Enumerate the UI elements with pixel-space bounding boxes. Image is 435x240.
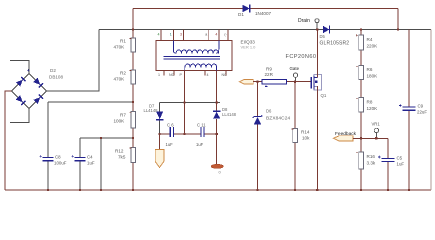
node VR1 [372, 122, 381, 139]
svg-text:C8: C8 [55, 155, 61, 160]
pin 7 stub [218, 30, 220, 41]
bottom pin stub NC [173, 70, 175, 75]
svg-text:R8: R8 [367, 100, 373, 105]
svg-text:470K: 470K [114, 45, 126, 50]
wire C5 column [387, 138, 389, 190]
svg-text:R16: R16 [367, 154, 376, 159]
svg-text:22R: 22R [265, 72, 274, 77]
capacitor C5 [378, 156, 405, 167]
svg-text:BZX84C24: BZX84C24 [266, 116, 290, 122]
svg-text:100K: 100K [114, 119, 126, 124]
svg-text:10k: 10k [302, 136, 310, 141]
ground [211, 134, 223, 174]
capacitor C9 [399, 104, 428, 115]
core lines [164, 56, 221, 59]
wire secondary lead A [184, 70, 186, 134]
pin 2 stub [172, 30, 174, 41]
svg-text:VR1: VR1 [372, 122, 381, 127]
wire C4 column [79, 138, 81, 157]
wire C8 column [47, 102, 49, 157]
svg-text:1N4007: 1N4007 [255, 11, 272, 16]
svg-text:C4: C4 [87, 155, 93, 160]
capacitor C6 [166, 122, 175, 147]
svg-text:NC: NC [169, 73, 175, 77]
wire HV divider tap [48, 101, 133, 103]
resistor R4 [356, 34, 378, 50]
capacitor C8 [40, 155, 67, 166]
svg-text:C 6: C 6 [167, 122, 174, 127]
wire left resistor column [132, 30, 134, 191]
pin 8 stub [227, 30, 229, 41]
svg-text:22uF: 22uF [417, 110, 427, 115]
capacitor C4 [72, 155, 95, 166]
svg-text:VER 1.0: VER 1.0 [241, 45, 257, 50]
svg-text:LL4148: LL4148 [222, 112, 237, 117]
resistor R9 [262, 67, 287, 87]
svg-text:GLR105SR2: GLR105SR2 [320, 41, 350, 47]
wire top rail [133, 9, 398, 30]
svg-text:D2: D2 [50, 68, 56, 73]
pin number marks top [158, 32, 228, 36]
wire snubber top [160, 102, 221, 104]
diode D5 GLR105SR2 [320, 26, 350, 47]
wire feedback net [353, 137, 388, 139]
svg-text:R2: R2 [120, 71, 126, 76]
svg-text:DB108: DB108 [49, 75, 63, 80]
node Gate [290, 66, 300, 82]
wire right edge [430, 30, 432, 191]
pin 3 stub [182, 30, 184, 41]
wire R14 column [294, 82, 296, 190]
svg-text:R6: R6 [367, 67, 373, 72]
wire C9 column [408, 30, 410, 191]
svg-text:220K: 220K [367, 44, 379, 49]
wire AC input live stub [10, 61, 29, 74]
svg-text:4: 4 [207, 73, 209, 77]
diode D8 [213, 107, 237, 134]
svg-text:R4: R4 [367, 37, 373, 42]
port output down [155, 134, 164, 168]
diode D1 [243, 5, 250, 13]
resistor R2 [114, 70, 136, 84]
port Vcc left [240, 79, 254, 84]
svg-text:1: 1 [170, 32, 172, 36]
svg-text:3.3k: 3.3k [367, 161, 376, 166]
wire AC input neutral stub [10, 109, 29, 123]
bottom pin stub 4 [204, 70, 206, 75]
svg-text:4: 4 [215, 32, 217, 36]
svg-text:C9: C9 [418, 104, 424, 109]
svg-text:1uF: 1uF [87, 161, 95, 166]
svg-text:3: 3 [180, 32, 182, 36]
zener D6 [253, 109, 291, 125]
svg-text:C5: C5 [397, 156, 403, 161]
wire snubber bottom [160, 133, 217, 135]
secondary winding [185, 64, 217, 70]
svg-text:R1: R1 [120, 39, 126, 44]
wire zener column [257, 82, 259, 190]
wire main horizontal bus [99, 29, 431, 31]
svg-text:LL4148: LL4148 [144, 108, 159, 113]
pin 1 stub [160, 30, 162, 41]
svg-text:4: 4 [158, 32, 160, 36]
svg-text:a: a [205, 32, 207, 36]
wire feedback lower tap [80, 137, 133, 139]
svg-text:1uF: 1uF [166, 142, 174, 147]
svg-text:R7: R7 [120, 113, 126, 118]
transistor Q1 [311, 75, 327, 99]
svg-text:Q1: Q1 [321, 93, 327, 98]
svg-text:7k5: 7k5 [118, 155, 126, 160]
svg-text:D6: D6 [266, 109, 272, 114]
svg-text:Drain: Drain [298, 18, 310, 24]
wire bottom rail [5, 189, 431, 191]
resistor R16 [356, 152, 376, 169]
wire drain column [316, 30, 318, 78]
svg-text:1uF: 1uF [196, 142, 204, 147]
wire middle drop column [100, 138, 102, 190]
wire gate net [253, 81, 311, 83]
bridge rectifier D2 DB108 [12, 69, 47, 108]
wire D7 column [159, 103, 161, 135]
resistor R14 [291, 129, 310, 143]
transformer T1 body [156, 41, 232, 71]
wire bridge plus riser [47, 30, 100, 92]
port Feedback [334, 131, 357, 141]
pin 6 stub [208, 30, 210, 41]
svg-text:R12: R12 [115, 149, 124, 154]
svg-text:1uF: 1uF [397, 162, 405, 167]
node Drain [298, 18, 319, 30]
svg-text:D5: D5 [320, 34, 326, 39]
svg-text:FCP20N60: FCP20N60 [286, 54, 317, 60]
bottom pin stub 1 [163, 70, 165, 75]
resistor R8 [356, 98, 378, 113]
resistor R7 [114, 112, 136, 128]
resistor R12 [115, 147, 135, 162]
svg-text:100uF: 100uF [54, 161, 67, 166]
wire right resistor column [360, 30, 362, 191]
resistor R6 [356, 66, 378, 80]
capacitor C11 [196, 122, 206, 147]
svg-text:C 11: C 11 [197, 122, 206, 127]
svg-text:R9: R9 [266, 67, 272, 72]
svg-text:Gate: Gate [290, 66, 300, 71]
wire source column [316, 86, 318, 190]
svg-text:1: 1 [158, 73, 160, 77]
wire secondary lead B [216, 70, 218, 111]
svg-text:R14: R14 [301, 130, 310, 135]
primary winding [173, 41, 219, 54]
svg-text:120K: 120K [367, 106, 379, 111]
svg-text:180K: 180K [367, 74, 379, 79]
svg-text:470K: 470K [114, 77, 126, 82]
bottom pin stub NC2 [225, 70, 227, 75]
bottom pin labels [158, 73, 227, 77]
svg-text:NC: NC [222, 73, 228, 77]
svg-text:D1: D1 [238, 12, 244, 17]
resistor R1 [114, 38, 136, 52]
diode D7 [144, 104, 164, 120]
wire bridge minus to left rail [5, 91, 12, 190]
